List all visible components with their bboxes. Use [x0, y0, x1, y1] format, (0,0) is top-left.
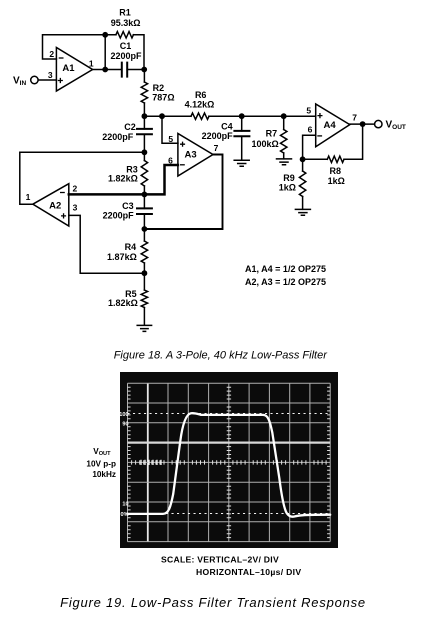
node dot C1 right	[141, 67, 147, 73]
capacitor C1	[122, 63, 127, 77]
svg-text:2200pF: 2200pF	[102, 132, 134, 142]
wire A4 output to VOUT	[350, 123, 375, 125]
svg-text:C2: C2	[124, 122, 136, 132]
resistor R5	[141, 290, 147, 308]
wire R9 bottom lead to ground	[302, 197, 304, 210]
svg-text:6: 6	[308, 124, 313, 134]
wire R3 top lead	[143, 152, 145, 160]
svg-text:Figure 19. Low-Pass Filter Tra: Figure 19. Low-Pass Filter Transient Res…	[60, 595, 366, 610]
node dot C3 bottom	[142, 226, 148, 232]
svg-text:1.87kΩ: 1.87kΩ	[107, 252, 137, 262]
dotted 100 percent line	[128, 413, 331, 415]
svg-text:SCALE: VERTICAL–2V/ DIV: SCALE: VERTICAL–2V/ DIV	[161, 555, 279, 565]
output terminal VOUT	[375, 120, 382, 127]
resistor R2	[141, 82, 147, 103]
node dot C2/R3/A2 loop	[142, 149, 148, 155]
svg-text:R4: R4	[125, 242, 137, 252]
wire R4 bottom lead	[143, 263, 145, 273]
capacitor C4	[234, 131, 249, 136]
svg-text:A4: A4	[324, 120, 337, 131]
wire R7 bottom lead to ground	[283, 153, 285, 159]
svg-text:3: 3	[48, 70, 53, 80]
scope trace	[128, 413, 331, 517]
svg-text:10V p-p: 10V p-p	[86, 460, 116, 469]
scope graticule vertical lines	[128, 383, 331, 541]
wire main rail y=116 left part	[144, 115, 191, 117]
svg-text:A2: A2	[49, 201, 61, 212]
node dot R8/R9	[300, 156, 306, 162]
op-amp polarity signs	[58, 58, 323, 219]
ground under R7	[277, 159, 292, 165]
op-amp A4	[316, 104, 350, 147]
svg-text:R7: R7	[266, 128, 278, 138]
node dot A3 pin5 branch	[159, 113, 165, 119]
svg-text:R8: R8	[330, 166, 342, 176]
op-amp A3	[178, 134, 213, 177]
wire branch to A3 pin5	[162, 116, 178, 143]
wire R5 bottom lead to ground	[143, 308, 145, 326]
oscilloscope photo background	[120, 372, 338, 548]
scope percent labels	[119, 412, 128, 518]
wire C1 right lead	[127, 69, 144, 71]
wire R4 top lead	[143, 229, 145, 241]
wire R9 top lead	[302, 159, 304, 171]
node dot A4 output	[360, 121, 366, 127]
wire A1 feedback loop pin2 to top rail	[43, 35, 116, 59]
svg-text:A2, A3 = 1/2 OP275: A2, A3 = 1/2 OP275	[245, 277, 326, 287]
svg-text:C1: C1	[120, 41, 132, 51]
A3 plus	[180, 142, 185, 147]
resistor R8	[327, 156, 344, 162]
A1 plus	[58, 78, 63, 83]
svg-text:10kHz: 10kHz	[92, 470, 116, 479]
resistor R4	[141, 241, 147, 263]
svg-text:6: 6	[168, 155, 173, 165]
svg-text:100: 100	[119, 412, 128, 418]
capacitor C2	[137, 129, 152, 134]
wire R2 bottom lead	[143, 103, 145, 116]
wire VIN to A1 pin3	[38, 79, 56, 81]
wire R1 right lead down to C1 right node	[133, 35, 144, 70]
node dot R4/R5	[142, 270, 148, 276]
op-amp A2 (points left)	[33, 184, 69, 226]
wire C4 bottom lead to ground	[241, 136, 243, 160]
node dot A1 output	[102, 67, 108, 73]
wire A4 pin6 left and down to R8/R9 node	[303, 135, 316, 159]
resistor R6	[191, 113, 209, 119]
ground under C4	[234, 160, 249, 166]
wire C3 top lead	[143, 194, 145, 208]
dotted 0 percent line	[128, 513, 331, 515]
svg-text:1.82kΩ: 1.82kΩ	[108, 173, 138, 183]
svg-text:Figure 18. A 3-Pole, 40 kHz Lo: Figure 18. A 3-Pole, 40 kHz Low-Pass Fil…	[114, 350, 328, 362]
wire A2 output loop to C2/R3 node	[20, 152, 145, 204]
node dot R7 top	[281, 113, 287, 119]
input terminal VIN	[31, 76, 38, 83]
svg-text:5: 5	[168, 134, 173, 144]
wire C3 bottom lead	[143, 214, 145, 229]
wire R5 top lead	[143, 273, 145, 290]
svg-text:787Ω: 787Ω	[152, 93, 174, 103]
svg-text:2: 2	[73, 184, 78, 194]
wire main rail y=116 right part to A4 pin5	[209, 115, 316, 117]
wire C2 top lead	[143, 116, 145, 129]
svg-text:A1, A4 = 1/2 OP275: A1, A4 = 1/2 OP275	[245, 264, 326, 274]
svg-text:2: 2	[49, 49, 54, 59]
resistor R7	[281, 130, 287, 154]
node dot C4 top	[239, 113, 245, 119]
wire C2 bottom lead to node	[143, 134, 145, 152]
resistor R3	[141, 161, 147, 186]
op-amp A1	[56, 48, 92, 92]
A1 minus	[59, 57, 64, 59]
svg-text:2200pF: 2200pF	[103, 211, 135, 221]
svg-text:7: 7	[214, 143, 219, 153]
scope edge minor ticks	[128, 387, 331, 537]
wire node to R2	[143, 70, 145, 83]
A2 minus	[60, 192, 65, 194]
svg-text:95.3kΩ: 95.3kΩ	[111, 18, 141, 28]
svg-text:100kΩ: 100kΩ	[251, 139, 278, 149]
svg-text:C4: C4	[221, 121, 233, 131]
svg-text:HORIZONTAL–10µs/ DIV: HORIZONTAL–10µs/ DIV	[196, 567, 301, 577]
node dot R3 bottom	[142, 192, 148, 198]
svg-text:R1: R1	[119, 8, 131, 18]
ground under R9	[295, 209, 310, 215]
svg-text:1kΩ: 1kΩ	[328, 176, 345, 186]
wire R8 left lead	[303, 158, 328, 160]
svg-text:A3: A3	[185, 150, 197, 161]
svg-text:90: 90	[122, 422, 128, 428]
wire R3 bottom lead	[143, 186, 145, 194]
svg-text:2200pF: 2200pF	[110, 51, 142, 61]
junction dots	[102, 32, 365, 276]
svg-text:5: 5	[306, 106, 311, 116]
A2 plus	[61, 213, 66, 218]
svg-text:1: 1	[89, 58, 94, 68]
svg-text:A1: A1	[62, 63, 75, 74]
svg-text:3: 3	[73, 202, 78, 212]
capacitor C3	[137, 208, 152, 214]
svg-text:10: 10	[122, 501, 128, 507]
wire A1 output to node	[93, 69, 122, 71]
wire A3 output feedback down and left to C3 node	[144, 155, 222, 230]
A3 minus	[180, 164, 185, 166]
svg-text:C3: C3	[122, 201, 134, 211]
A4 minus	[317, 135, 322, 137]
svg-text:1kΩ: 1kΩ	[279, 183, 296, 193]
svg-text:1: 1	[26, 192, 31, 202]
svg-text:R9: R9	[283, 173, 295, 183]
wire vertical from top rail to A1 output node	[104, 35, 106, 70]
A4 plus	[317, 113, 322, 118]
svg-text:2200pF: 2200pF	[202, 131, 234, 141]
resistor R9	[299, 171, 305, 196]
wire A2 pin3 down to R4/R5 node	[69, 215, 145, 273]
wire A2 pin2 to A3 pin6 (bold)	[69, 165, 178, 194]
resistor R1	[116, 32, 134, 38]
node dot R2 bottom rail	[142, 113, 148, 119]
wire R7 top lead	[283, 116, 285, 129]
wire R8 right lead up to output node	[344, 124, 363, 159]
node dot top rail left	[102, 32, 108, 38]
ground under R5	[137, 325, 151, 331]
scope centre-line minor ticks	[132, 387, 327, 537]
scope left annotation VOUT 10V p-p 10kHz	[86, 447, 116, 479]
svg-text:1.82kΩ: 1.82kΩ	[108, 298, 138, 308]
svg-text:7: 7	[352, 112, 357, 122]
wire C4 top lead	[241, 116, 243, 131]
scope graticule horizontal lines	[128, 383, 331, 541]
svg-text:4.12kΩ: 4.12kΩ	[185, 100, 215, 110]
